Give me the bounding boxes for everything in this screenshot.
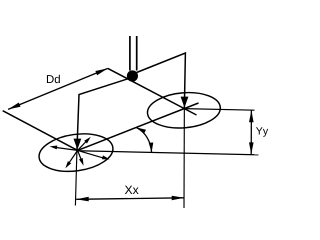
- nozzle ball: [127, 70, 138, 81]
- spray arrow down-left: [65, 150, 77, 168]
- right leader wire: ball to bend then down to right spray center: [137, 53, 186, 109]
- spray arrow left: [50, 146, 78, 151]
- left leader wire: ball to bend then down to left spray center: [77, 79, 128, 151]
- right leader arrowhead at right spray center: [181, 97, 189, 108]
- angle arc arrowhead bottom: [149, 143, 154, 153]
- Yy arrowhead up: [249, 110, 254, 122]
- right Xx extension line below center: [183, 109, 185, 209]
- right ellipse (spray spot): [146, 90, 222, 131]
- left spray trajectory extension line (up-left from left center): [3, 111, 78, 151]
- right spray trajectory line (through ball underside and right center): [108, 68, 197, 115]
- spray arrow up-right: [78, 137, 91, 151]
- svg-text:Dd: Dd: [46, 74, 61, 86]
- angle dimension arc: [136, 127, 151, 152]
- Xx dimension line: [76, 198, 184, 200]
- Yy dimension line: [250, 110, 252, 154]
- baseline reference line (from left center): [78, 151, 259, 155]
- spray arrow down-right: [78, 150, 110, 159]
- svg-text:Yy: Yy: [256, 126, 269, 138]
- Dd dimension line: [8, 68, 108, 109]
- nozzle tube left line: [129, 36, 131, 71]
- Yy arrowhead down: [249, 142, 254, 154]
- angle arc arrowhead top: [136, 127, 146, 133]
- Dd arrowhead right: [95, 68, 107, 75]
- Dd arrowhead left: [8, 103, 20, 110]
- Xx arrowhead right: [172, 196, 185, 201]
- left ellipse (spray spot): [37, 129, 116, 175]
- Yy top reference line (from right center): [184, 109, 254, 111]
- svg-text:Xx: Xx: [125, 183, 139, 197]
- spray arrow down: [78, 150, 84, 165]
- left Xx extension line below center: [75, 151, 77, 206]
- left leader arrowhead at left spray center: [74, 139, 82, 150]
- center-to-center line: [78, 103, 199, 150]
- Xx arrowhead left: [76, 197, 89, 202]
- nozzle tube right line: [136, 36, 138, 71]
